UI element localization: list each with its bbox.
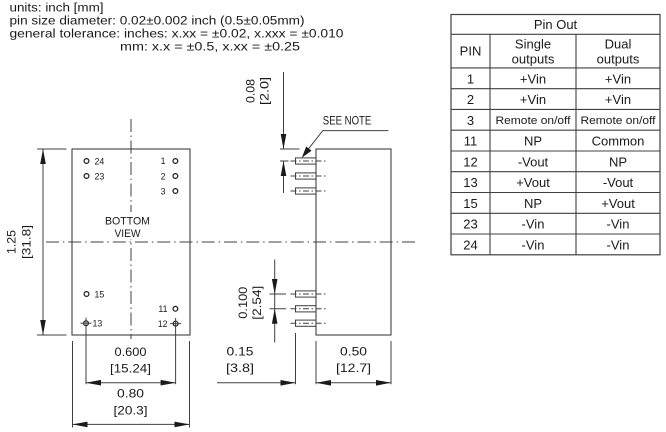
dimension 0.600 line with arrows xyxy=(86,380,176,386)
svg-text:[20.3]: [20.3] xyxy=(114,404,148,417)
svg-text:+Vout: +Vout xyxy=(516,175,550,190)
dimension text 0.600 [15.24] xyxy=(110,346,151,376)
horizontal centerline through both views xyxy=(46,241,415,243)
dimension 1.25 line with arrows xyxy=(40,149,46,335)
svg-text:PIN: PIN xyxy=(460,44,482,59)
pin 15 circle xyxy=(84,292,89,297)
pin 3 circle xyxy=(173,189,178,194)
svg-text:Remote on/off: Remote on/off xyxy=(581,115,657,127)
pin 13 circle with crosshair xyxy=(81,321,92,326)
svg-text:Common: Common xyxy=(592,134,645,149)
pin 1 circle xyxy=(173,159,178,164)
svg-text:+Vin: +Vin xyxy=(605,92,631,107)
svg-text:23: 23 xyxy=(95,171,105,181)
dimension 0.600 extension lines from pins 13 and 12 xyxy=(86,318,176,385)
svg-text:+Vin: +Vin xyxy=(520,92,546,107)
pin 12 circle with crosshair xyxy=(170,321,181,326)
svg-text:Pin Out: Pin Out xyxy=(534,17,578,32)
dimension 0.08 extension ticks xyxy=(280,149,300,161)
svg-text:SEE NOTE: SEE NOTE xyxy=(323,114,372,128)
svg-text:0.600: 0.600 xyxy=(115,346,147,359)
svg-text:-Vin: -Vin xyxy=(607,217,630,232)
svg-text:0.15: 0.15 xyxy=(227,346,254,359)
svg-text:0.80: 0.80 xyxy=(117,388,144,401)
dimension 1.25 height: extension ticks xyxy=(37,149,67,335)
dimension text 1.25 [31.8] xyxy=(6,225,34,259)
svg-text:0.100: 0.100 xyxy=(237,287,250,319)
svg-text:2: 2 xyxy=(161,171,166,181)
side view pin row 6 xyxy=(291,320,328,326)
bottom view body outline xyxy=(72,149,190,335)
svg-text:+Vin: +Vin xyxy=(520,71,546,86)
svg-text:[12.7]: [12.7] xyxy=(336,362,371,375)
svg-text:1: 1 xyxy=(161,156,166,166)
svg-text:23: 23 xyxy=(463,217,477,232)
svg-text:[2.54]: [2.54] xyxy=(251,286,264,320)
svg-text:11: 11 xyxy=(464,134,478,149)
side view pin row 3 xyxy=(291,188,328,194)
svg-text:15: 15 xyxy=(95,289,105,299)
table row pin 15 xyxy=(463,196,635,211)
table row pin 2 xyxy=(467,92,631,107)
svg-text:outputs: outputs xyxy=(597,52,640,67)
svg-text:pin size diameter: 0.02±0.002: pin size diameter: 0.02±0.002 inch (0.5±… xyxy=(10,14,305,28)
svg-text:BOTTOM: BOTTOM xyxy=(105,216,150,228)
dimension 0.15 extension line from pin tip xyxy=(295,333,297,384)
svg-text:NP: NP xyxy=(524,134,542,149)
svg-text:3: 3 xyxy=(161,186,166,196)
svg-text:units: inch [mm]: units: inch [mm] xyxy=(10,1,104,15)
dimension text 0.08 [2.0] xyxy=(245,77,272,105)
svg-text:VIEW: VIEW xyxy=(115,228,141,240)
table header Single outputs xyxy=(512,37,555,67)
dimension 0.100 line with outside arrows xyxy=(272,260,278,343)
dimension 0.100 extension ticks xyxy=(270,294,287,309)
svg-text:general tolerance: inches: x.x: general tolerance: inches: x.xx = ±0.02,… xyxy=(10,27,344,41)
svg-text:NP: NP xyxy=(609,154,627,169)
dimension 0.50 line with arrows xyxy=(316,380,391,386)
svg-text:-Vin: -Vin xyxy=(522,237,545,252)
svg-text:24: 24 xyxy=(95,156,105,166)
side view pin row 2 xyxy=(291,173,328,179)
dimension 0.80 extension lines xyxy=(73,341,190,428)
svg-text:3: 3 xyxy=(467,113,474,128)
svg-text:15: 15 xyxy=(463,196,477,211)
svg-text:Dual: Dual xyxy=(605,37,632,52)
svg-text:2: 2 xyxy=(467,92,474,107)
svg-text:NP: NP xyxy=(524,196,542,211)
dimension 0.80 line with arrows xyxy=(73,422,190,428)
svg-text:1: 1 xyxy=(467,71,474,86)
side view pin row 4 xyxy=(291,291,328,297)
dimension 0.08 line with outside arrows xyxy=(281,72,287,193)
svg-text:13: 13 xyxy=(93,318,103,328)
svg-text:12: 12 xyxy=(158,319,168,329)
SEE NOTE leader line with arrow xyxy=(302,131,389,158)
svg-text:[31.8]: [31.8] xyxy=(21,225,34,259)
pinout table grid xyxy=(451,15,660,255)
dimension 0.50 extension lines xyxy=(316,341,391,384)
svg-text:mm: x.x = ±0.5, x.xx = ±0.25: mm: x.x = ±0.5, x.xx = ±0.25 xyxy=(120,40,300,54)
table row pin 3 xyxy=(467,113,657,128)
svg-text:-Vin: -Vin xyxy=(607,237,630,252)
svg-text:24: 24 xyxy=(463,237,477,252)
table row pin 24 xyxy=(463,237,629,252)
table header Dual outputs xyxy=(597,37,640,67)
svg-text:Remote on/off: Remote on/off xyxy=(496,115,572,127)
table row pin 11 xyxy=(464,134,645,149)
pin 24 circle xyxy=(84,159,89,164)
table row pin 13 xyxy=(463,175,633,190)
dimension text 0.50 [12.7] xyxy=(336,346,371,376)
svg-text:[2.0]: [2.0] xyxy=(259,77,272,105)
table row pin 1 xyxy=(467,71,631,86)
svg-text:+Vout: +Vout xyxy=(601,196,635,211)
svg-text:+Vin: +Vin xyxy=(605,71,631,86)
svg-text:0.50: 0.50 xyxy=(340,346,367,359)
svg-text:12: 12 xyxy=(463,154,477,169)
svg-text:Single: Single xyxy=(515,37,551,52)
pin 23 circle xyxy=(84,174,89,179)
vertical centerline of bottom view xyxy=(130,119,132,339)
side view pin row 5 xyxy=(291,306,328,312)
svg-text:0.08: 0.08 xyxy=(245,79,258,103)
svg-text:outputs: outputs xyxy=(512,52,555,67)
dimension text 0.100 [2.54] xyxy=(237,286,264,320)
pin 11 circle xyxy=(173,306,178,311)
svg-text:13: 13 xyxy=(463,175,477,190)
svg-text:[15.24]: [15.24] xyxy=(110,363,151,376)
svg-text:-Vout: -Vout xyxy=(603,175,634,190)
svg-text:-Vin: -Vin xyxy=(522,217,545,232)
side view body outline xyxy=(316,149,391,335)
side view pin row 1 xyxy=(291,158,328,164)
svg-text:11: 11 xyxy=(158,304,167,314)
pin 2 circle xyxy=(173,174,178,179)
svg-text:-Vout: -Vout xyxy=(518,154,549,169)
table row pin 12 xyxy=(463,154,627,169)
dimension text 0.15 [3.8] xyxy=(226,346,254,376)
table row pin 23 xyxy=(463,217,629,232)
svg-text:1.25: 1.25 xyxy=(6,230,19,254)
BOTTOM VIEW label xyxy=(100,212,161,240)
dimension text 0.80 [20.3] xyxy=(114,388,148,418)
svg-text:[3.8]: [3.8] xyxy=(226,362,254,375)
dimension 0.15 leader with arrow xyxy=(217,380,296,386)
